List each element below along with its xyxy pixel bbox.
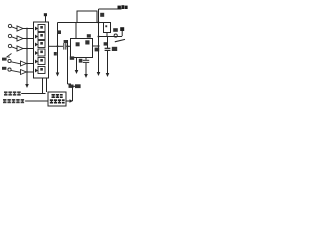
bus junction dots (26, 28, 28, 30)
U3 text row 1 (52, 94, 63, 98)
U3 text row 2 (50, 99, 65, 103)
supply rail (99, 8, 122, 10)
label C2 (79, 59, 83, 63)
U3 output wire (66, 100, 70, 102)
register box U1 (left tall box) (34, 22, 49, 78)
input terminal 3 (8, 44, 33, 51)
junction dot (57, 45, 59, 47)
input terminal 5 (2, 67, 34, 75)
input terminal 2 (8, 34, 33, 41)
cell 2 of U1 (35, 33, 45, 40)
U1 bottom wires (42, 78, 44, 94)
capacitor C3 on right drop (107, 37, 109, 49)
anode supply box T1 (top box) (77, 11, 97, 23)
label below right pin (95, 48, 100, 52)
label Rb (57, 30, 61, 34)
pulse shaper box U3 (48, 92, 66, 106)
annotation check mark (7, 54, 12, 58)
resistor drop wire R1 (57, 23, 59, 73)
terminal T2 (120, 27, 124, 31)
output wire right (99, 36, 123, 38)
R1 down arrow (56, 73, 60, 77)
resistor R2 box (104, 23, 111, 33)
label F (75, 84, 81, 88)
caption leader 2 (25, 100, 48, 102)
label Ra (100, 13, 104, 17)
U2 top pin (75, 23, 77, 39)
junction dots (98, 22, 100, 24)
input terminal 4 (2, 58, 34, 66)
U2 bottom pin wire 1 (76, 58, 78, 71)
annotation dash (115, 39, 125, 41)
cell 3 of U1 (35, 41, 45, 48)
label Cb (112, 47, 117, 51)
top pin of U1 (45, 16, 47, 23)
cell 6 of U1 (35, 67, 45, 74)
caption text row 1 (4, 91, 21, 95)
label Tb (70, 56, 74, 59)
bus down arrow (25, 84, 29, 88)
input terminal 1 (8, 24, 33, 31)
capacitor C2 (85, 58, 87, 60)
U2 right pin wire (93, 45, 99, 47)
U2 label left (76, 42, 80, 46)
right vertical wire (98, 9, 100, 72)
label Ca (113, 28, 118, 32)
capacitor C1 (63, 43, 65, 50)
input bus vertical (26, 29, 28, 85)
top rail wire (58, 22, 111, 24)
node a label (87, 34, 91, 37)
caption text row 2 (3, 99, 24, 103)
cell 1 of U1 (35, 25, 45, 32)
feedback wire vertical (72, 86, 74, 101)
label C1 (64, 40, 68, 43)
wire from U1 to U2 (49, 45, 64, 47)
flip-flop box U2 (71, 39, 93, 58)
caption leader 1 (21, 93, 45, 95)
terminal circle (114, 34, 117, 37)
label b (54, 52, 57, 56)
node wire vertical (67, 40, 69, 84)
supply label (118, 6, 121, 9)
U2 label right (85, 40, 89, 44)
cell 4 of U1 (35, 49, 45, 56)
label Ho (69, 85, 74, 88)
cell 5 of U1 (35, 58, 45, 65)
